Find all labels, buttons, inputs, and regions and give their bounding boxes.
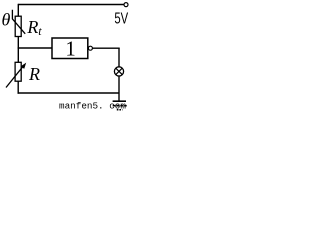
thermistor Rt diagonal — [12, 10, 25, 34]
inversion bubble — [88, 46, 92, 50]
svg-text:R: R — [26, 17, 38, 37]
wire left bottom stub — [17, 81, 19, 94]
wire left top stub — [17, 4, 19, 17]
wire gate output — [93, 47, 120, 49]
ground dash row 1 — [113, 105, 127, 107]
ground dash row 2 — [117, 109, 123, 111]
NOT gate U1 box — [52, 38, 88, 59]
thermistor Rt body — [15, 16, 21, 36]
lamp — [114, 67, 123, 76]
wire left middle — [17, 36, 19, 62]
svg-text:5V: 5V — [114, 11, 128, 28]
wire right vertical upper — [118, 48, 120, 67]
variable resistor R body — [15, 62, 21, 81]
svg-text:R: R — [28, 64, 40, 84]
svg-text:manfen5. com: manfen5. com — [59, 101, 126, 112]
wire gate input — [18, 47, 52, 49]
ground bar — [113, 100, 126, 102]
terminal 5V — [124, 3, 128, 7]
wire top rail — [18, 4, 123, 6]
wire right vertical lower — [118, 76, 120, 101]
variable resistor R arrow — [6, 65, 24, 87]
wire bottom rail — [18, 92, 120, 94]
svg-text:1: 1 — [65, 37, 75, 61]
svg-text:θ: θ — [2, 10, 11, 30]
